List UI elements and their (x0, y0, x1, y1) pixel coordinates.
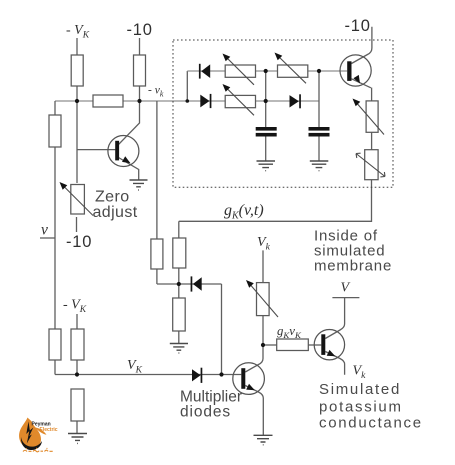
junction dot -10/bus (137, 99, 141, 103)
wire y284 diode row (157, 283, 222, 285)
wire Q3 collector to V (325, 298, 344, 339)
svg-text:gKvK: gKvK (277, 324, 302, 340)
wire Q1 emitter (119, 158, 139, 180)
resistor R11 (gk column lower) (173, 298, 186, 331)
wire Q1 collector (119, 101, 140, 145)
diode D2 (multiplier, points left) (193, 277, 202, 291)
junction dot -Vk/bus (75, 99, 79, 103)
svg-text:Zero: Zero (95, 189, 130, 206)
junction dot C2 upper (317, 69, 321, 73)
arrow line of R18 (356, 153, 385, 177)
resistor R8 (to ground) (71, 389, 84, 421)
resistor R12 (Vk variable) (257, 283, 270, 316)
transistor Q1 (zero adjust) (108, 136, 139, 167)
svg-text:Vk: Vk (353, 364, 367, 382)
svg-text:gK(v,t): gK(v,t) (224, 202, 264, 222)
wire R8 to ground (76, 421, 78, 433)
wire Q2 collector (245, 345, 263, 372)
arrow of R16 (225, 86, 255, 115)
arrow of R17 (355, 101, 385, 135)
wire gk(v,t) feedback (179, 180, 372, 222)
svg-text:adjust: adjust (93, 204, 138, 221)
wire Q4 emitter (352, 79, 371, 88)
svg-text:conductance: conductance (319, 415, 423, 432)
wire C2 to ground (318, 137, 320, 162)
wire cap C1 column (265, 71, 267, 127)
wire multiplier feedback column (221, 284, 223, 375)
svg-text:Vk: Vk (257, 235, 271, 253)
ground below R8 (68, 434, 87, 444)
dashed membrane box (173, 40, 393, 187)
capacitor C2 (309, 127, 330, 131)
svg-text:Simulated: Simulated (319, 381, 401, 398)
resistor R15 (variable, upper branch right) (278, 65, 308, 77)
junction dot C1 upper (264, 69, 268, 73)
svg-text:v: v (41, 222, 48, 239)
wire -Vk supply drop (76, 38, 78, 101)
svg-text:diodes: diodes (180, 404, 231, 421)
wire -10 supply drop (139, 38, 141, 101)
wire Q1 base (77, 149, 115, 151)
resistor R7 (49, 329, 61, 360)
wire left column v input line (54, 101, 56, 375)
svg-text:VK: VK (127, 358, 143, 376)
wire junction to gkvk resistor (263, 344, 277, 346)
svg-text:- VK: - VK (63, 298, 87, 316)
wire zero-adjust column (76, 101, 78, 183)
resistor R14 (variable, upper branch left) (225, 65, 255, 77)
junction dot C1 bus (264, 99, 268, 103)
transistor Q2 (multiplier output) (233, 363, 265, 395)
junction dot y284 (177, 282, 181, 286)
junction dot Vk bus x221 (219, 372, 223, 376)
wire Q2 emitter to ground (245, 386, 263, 436)
wire upper branch inside membrane box (186, 71, 188, 101)
resistor R16 (variable, main bus) (225, 95, 255, 107)
wire C1 to ground (265, 137, 267, 162)
resistor R4 (left column top) (49, 115, 61, 147)
wire V supply bar (332, 297, 359, 299)
ground below R11 (170, 344, 188, 354)
svg-text:- vk: - vk (148, 85, 164, 99)
svg-text:-10: -10 (66, 233, 92, 251)
resistor R10 (gk column upper) (173, 238, 186, 268)
resistor R1 (-Vk top) (71, 55, 83, 86)
resistor R17 (right column upper, variable) (366, 101, 378, 132)
wire gkvk resistor to Q3 base (308, 344, 321, 346)
svg-text:potassium: potassium (319, 399, 403, 416)
svg-text:- VK: - VK (66, 23, 90, 41)
logo Peyman Electric (19, 418, 58, 452)
wire Vk bus (55, 374, 241, 376)
wire -Vk lower supply drop (76, 314, 78, 329)
junction dot Vk bus x77 (75, 372, 79, 376)
svg-text:-10: -10 (127, 21, 153, 39)
svg-text:-10: -10 (345, 17, 371, 35)
resistor R5 (zero adjust, variable) (71, 185, 85, 215)
capacitor C1 (256, 127, 277, 131)
wire gk column x179 (178, 221, 180, 343)
wire main horizontal -v_k bus (55, 100, 319, 102)
resistor R6 (71, 329, 84, 360)
resistor R2 (-10 top) (134, 55, 146, 86)
diode D5 (main bus right, points right) (290, 95, 299, 107)
resistor R3 (horizontal on bus) (93, 95, 123, 107)
wire R6 bottom (76, 360, 78, 375)
wire v input tick (40, 237, 55, 239)
diode D3 (upper branch, points left) (201, 64, 210, 78)
wire divider column x157 (156, 101, 158, 284)
junction dot branch/bus (186, 99, 190, 103)
wire Q3 emitter to Vk (325, 352, 344, 375)
junction dot gkvk node (261, 343, 265, 347)
ground below Q2 (254, 435, 273, 445)
svg-text:membrane: membrane (314, 258, 392, 275)
arrow of R15 (277, 55, 307, 84)
wire upper branch horizontal (187, 70, 347, 72)
transistor Q4 (membrane box) (340, 55, 371, 86)
transistor Q3 (simulated gk output) (314, 330, 344, 360)
svg-text:Electric: Electric (40, 427, 58, 433)
wire cap C2 column (318, 71, 320, 127)
diode D1 (multiplier, on Vk bus) (192, 369, 201, 381)
svg-text:V: V (341, 281, 351, 296)
wire Q4 collector to -10 (352, 27, 372, 64)
resistor R18 (right column lower, variable) (365, 150, 378, 180)
arrow of R5 zero adjust (62, 184, 94, 216)
arrow of R12 (248, 282, 278, 317)
wire right column in box (371, 88, 373, 180)
resistor R13 (gk vk horizontal) (277, 339, 309, 351)
ground below Q1 (130, 180, 148, 190)
ground below C1 (257, 161, 276, 171)
resistor R9 (divider x157) (151, 239, 163, 269)
arrow of R14 (225, 56, 255, 85)
wire zero-adjust to -10 (76, 217, 78, 232)
diode D4 (main bus, points right) (200, 95, 209, 108)
wire Vk mid column (262, 250, 264, 345)
ground below C2 (310, 161, 329, 171)
